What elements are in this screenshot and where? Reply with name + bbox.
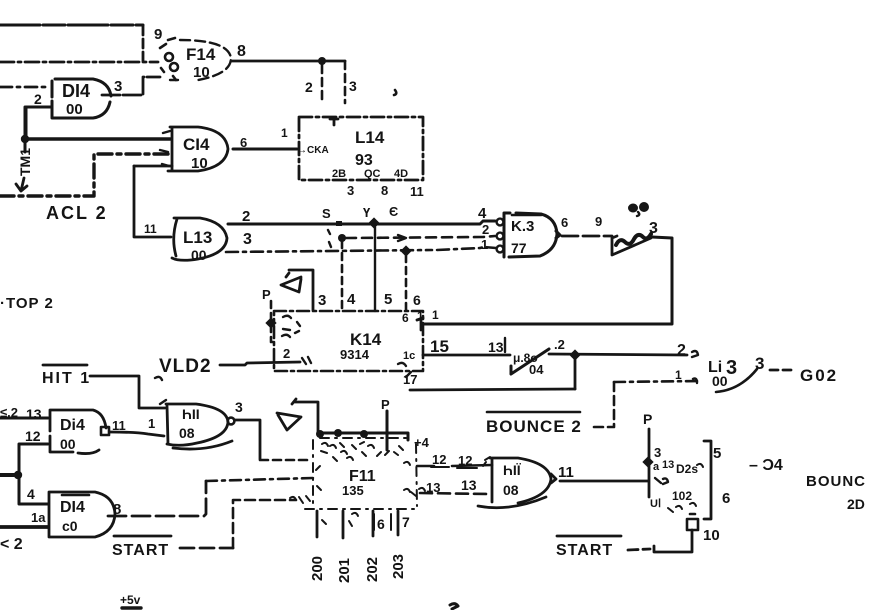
wire K14 pin17 run to junction drop (410, 389, 575, 390)
wire D14 output to F14 lower input (102, 77, 160, 95)
gate HIT2 output nub (551, 474, 556, 483)
net BOUNCE2 overline (487, 411, 580, 414)
wire START1 riser into F11 pin1 (233, 500, 296, 548)
svg-text:5: 5 (713, 445, 721, 462)
wire F14 output run (232, 60, 345, 63)
svg-text:.2: .2 (554, 337, 565, 352)
wire F11 out13 to HIT gate (420, 493, 490, 494)
wire left edge to D14b pin13 (0, 417, 48, 420)
svg-text:1: 1 (417, 309, 424, 323)
F11 top pin scribbles (321, 442, 398, 456)
flag P marker lower bracket (292, 399, 318, 433)
svg-text:201: 201 (336, 558, 353, 583)
wire QB drop to K14 pin5 (374, 227, 376, 311)
gate F14 body arc (170, 40, 231, 80)
svg-text:8: 8 (237, 43, 246, 60)
svg-text:1a: 1a (31, 510, 46, 525)
gate C14 body (168, 127, 228, 171)
svg-text:4: 4 (478, 205, 487, 222)
pin label underlines (431, 467, 477, 468)
wire D14c output dash run (108, 481, 206, 516)
net HIT1 overline (43, 364, 87, 367)
svg-text:00: 00 (191, 247, 207, 263)
svg-text:102: 102 (672, 489, 692, 503)
svg-text:3: 3 (243, 231, 252, 248)
svg-text:08: 08 (503, 482, 519, 498)
IC box F11 outline (305, 438, 417, 509)
stray mark bottom center (450, 604, 458, 609)
inverter D4 triangle (612, 236, 651, 255)
SEC-TOPLEFT (0, 25, 424, 312)
svg-text:00: 00 (66, 101, 83, 118)
wire P2 vertical (648, 429, 651, 497)
svg-text:3: 3 (349, 78, 357, 94)
F11 extra pin scribbles (330, 445, 403, 461)
svg-text:10: 10 (193, 64, 210, 81)
wire QC line dashes to K3 pin2 (346, 236, 495, 238)
svg-text:3: 3 (347, 183, 354, 198)
svg-text:4: 4 (27, 486, 35, 502)
svg-text:K.3: K.3 (511, 218, 534, 235)
svg-text:P: P (381, 397, 390, 412)
wire BOUNCE2 riser (593, 382, 614, 427)
svg-text:2: 2 (34, 91, 42, 107)
gate L13 body (172, 218, 227, 260)
svg-text:11: 11 (144, 222, 157, 236)
wire drop from junction (574, 355, 577, 389)
junction on F14 output (318, 57, 326, 65)
svg-text:L14: L14 (355, 128, 385, 147)
junction diamond on QB line (368, 217, 379, 228)
svg-text:D2ѕ: D2ѕ (676, 462, 698, 476)
svg-text:2: 2 (283, 346, 290, 361)
svg-text:3: 3 (755, 354, 764, 373)
junction dots on F11 top bus (316, 430, 324, 438)
svg-text:P: P (262, 287, 271, 302)
svg-text:1: 1 (432, 308, 439, 322)
wire VLD2 into K14 (220, 362, 300, 365)
K14 left scribbles (282, 316, 300, 337)
svg-text:13: 13 (26, 406, 42, 422)
flag arrow lower (277, 413, 301, 430)
pin 6 bracket (374, 514, 391, 530)
svg-text:4: 4 (347, 291, 356, 308)
svg-text:7: 7 (402, 514, 410, 530)
gate E8 output bubble (228, 418, 235, 425)
svg-text:˂ 2: ˂ 2 (0, 536, 23, 553)
svg-text:202: 202 (364, 557, 381, 582)
F11 bottom pin stubs (317, 511, 398, 538)
stub marks x328 (328, 230, 331, 247)
wire C14 output to L14 (233, 148, 297, 151)
svg-text:135: 135 (342, 483, 364, 498)
wire input to D14 from left edge (0, 86, 50, 89)
svg-text:2B: 2B (332, 168, 346, 180)
flag P marker upper (286, 270, 313, 310)
wire ACC2 dash-dot from left edge (0, 154, 170, 196)
svg-text:1: 1 (148, 416, 155, 431)
svg-text:2D: 2D (847, 496, 865, 512)
svg-text:08: 08 (179, 425, 195, 441)
svg-text:c0: c0 (62, 518, 78, 534)
svg-text:L13: L13 (183, 228, 212, 247)
svg-text:15: 15 (430, 337, 449, 356)
node TM1 junction (21, 135, 29, 143)
inverter D4 blobs above (628, 204, 638, 213)
junction dot on left vertical (14, 471, 22, 479)
svg-text:6: 6 (561, 215, 568, 230)
gate D14b body (50, 410, 106, 454)
K14 output corner marks (417, 318, 423, 330)
net P vertical into F11 (386, 411, 389, 450)
gate F14 scribble marks (160, 38, 176, 80)
svg-text:13: 13 (662, 459, 674, 471)
svg-text:Uا: Uا (650, 498, 661, 510)
svg-text:8: 8 (381, 183, 388, 198)
gate D14b output square (101, 427, 109, 435)
wire START2 dash (628, 549, 650, 550)
wire QC drop to K14 pin4 (341, 241, 344, 311)
flag arrow upper (281, 277, 301, 292)
svg-text:04: 04 (529, 362, 544, 377)
arrowhead on QC line (398, 235, 406, 241)
pin 13 tick (504, 338, 506, 352)
inverter D4 scribble label (616, 234, 651, 245)
gate K3 input bubbles (497, 219, 504, 226)
svg-text:6: 6 (377, 516, 385, 532)
svg-text:12: 12 (458, 453, 472, 468)
svg-text:S: S (322, 206, 331, 221)
SEC-BOTTOM (0, 365, 866, 609)
svg-text:F14: F14 (186, 45, 216, 64)
junction dot QC line (338, 234, 346, 242)
wire BOUNCE2 lower input dash-dot (614, 381, 700, 382)
wire vertical x134 down to L13 (134, 166, 171, 237)
svg-text:QC: QC (364, 168, 381, 180)
svg-text:1c: 1c (403, 350, 415, 362)
svg-text:12: 12 (432, 452, 446, 467)
wire K3 output to inverter (562, 235, 612, 238)
svg-text:11: 11 (558, 464, 574, 481)
svg-text:4D: 4D (394, 168, 408, 180)
wire top feed from left edge (0, 24, 143, 27)
svg-text:3: 3 (114, 78, 122, 95)
wire D14b output to gate E8 (110, 432, 164, 436)
gate K3 body (504, 213, 557, 257)
gate C14 input ticks (160, 131, 170, 166)
svg-text:3: 3 (649, 220, 658, 237)
svg-text:2: 2 (242, 208, 250, 225)
svg-text:→CKA: →CKA (297, 145, 329, 156)
svg-text:1: 1 (675, 368, 682, 382)
IC box L14 (7493 counter) (299, 117, 423, 180)
net START1 overline (114, 535, 171, 538)
svg-text:2: 2 (305, 79, 313, 95)
wire START1 to riser (180, 547, 233, 550)
svg-text:3: 3 (726, 357, 737, 379)
svg-text:12: 12 (25, 428, 41, 444)
svg-text:ACL 2: ACL 2 (46, 203, 108, 223)
junction diamond on QD line (400, 245, 411, 256)
svg-text:·TOP 2: ·TOP 2 (0, 295, 54, 312)
wire dash into F11 left (260, 459, 312, 462)
wire F11 top bus (318, 433, 408, 440)
svg-text:77: 77 (511, 240, 527, 256)
K14 pin17 tick (398, 363, 411, 377)
svg-text:2: 2 (677, 342, 686, 359)
svg-text:STARТ: STARТ (556, 542, 613, 559)
svg-text:6: 6 (413, 292, 421, 308)
svg-text:9: 9 (595, 214, 602, 229)
svg-text:13: 13 (461, 477, 477, 493)
svg-text:11: 11 (410, 184, 424, 199)
small mark on lower input (693, 379, 697, 384)
svg-text:3: 3 (318, 292, 326, 309)
svg-text:DI4: DI4 (60, 499, 85, 516)
wire D14c output dash into F11 (206, 478, 313, 481)
svg-text:– Ɔ4: – Ɔ4 (749, 457, 783, 474)
svg-text:HIT 1: HIT 1 (42, 370, 91, 387)
svg-text:9: 9 (154, 26, 162, 43)
svg-text:93: 93 (355, 152, 373, 169)
wire HIT2 output to D4 (560, 480, 648, 483)
svg-text:6: 6 (402, 311, 409, 325)
inverter M8 04 diagonal (511, 349, 549, 374)
wire D14 pin2 corner (26, 107, 52, 139)
svg-text:200: 200 (309, 556, 326, 581)
wire HIT1 to gate E8 (90, 376, 165, 408)
gate D14c body (49, 492, 115, 537)
IC D4 right bracket (704, 441, 711, 519)
IC box K14 (9314) (274, 311, 423, 371)
wire D14b pin12 corner from vertical (19, 444, 48, 504)
svg-text:a: a (653, 461, 660, 473)
svg-text:5: 5 (384, 291, 392, 308)
gate D14 (7400) body (52, 79, 111, 118)
svg-text:ҺІЇ: ҺІЇ (503, 462, 522, 478)
wire stub from left edge (0, 473, 18, 477)
wire dash-dot bus into F14 pin (0, 61, 158, 64)
small mark after 2 (692, 351, 698, 357)
wire C14 third input from vertical (134, 165, 172, 168)
wire Q output 15 line (423, 354, 510, 357)
wire START2 to D4 (654, 530, 692, 552)
wire QD dash-dot line to K3 pin1 (226, 247, 496, 252)
gate K3 overbar (512, 214, 541, 217)
wire F11 out12 to HIT gate (417, 465, 492, 466)
wire QD drop to K14 pin6 (405, 255, 408, 311)
junction diamond on P drop (265, 317, 276, 328)
svg-text:1: 1 (281, 126, 288, 140)
F11 bottom pin ticks (322, 513, 358, 526)
wire P dash into K14 (271, 301, 276, 342)
net TM1 arrow tail (16, 178, 27, 191)
svg-text:BOUNC: BOUNC (806, 473, 866, 490)
svg-text:BOUNCE 2: BOUNCE 2 (486, 417, 582, 436)
svg-text:Dі4: Dі4 (60, 417, 85, 434)
+5V bar (122, 606, 141, 609)
svg-text:00: 00 (712, 373, 728, 389)
D4 bottom square pin (687, 514, 698, 530)
wire E8 output corner to F11 (235, 420, 260, 459)
wire TM1 to C14 pin1 (25, 137, 170, 140)
wire junction drop to L14 pin B (321, 65, 324, 103)
pin 5 mark gate E8 (155, 377, 166, 404)
gate F14 input bubbles (165, 53, 173, 61)
svg-text:1: 1 (481, 237, 488, 252)
small mark right of L14 pins (394, 90, 396, 95)
svg-text:2: 2 (482, 222, 489, 237)
F11 right pin scribbles (404, 462, 425, 496)
svg-text:ҺІІ: ҺІІ (182, 406, 200, 422)
K14 pin2 tick (302, 357, 311, 364)
svg-text:9314: 9314 (340, 347, 370, 362)
gate E8 HIT body (166, 404, 232, 449)
svg-text:00: 00 (60, 436, 76, 452)
wire left edge to D14c pin10 (0, 525, 48, 529)
SEC-MID (144, 202, 838, 436)
wire corner down to F14 input (142, 26, 145, 63)
svg-text:6: 6 (722, 490, 730, 507)
junction diamond x575 (569, 349, 580, 360)
svg-text:10: 10 (703, 527, 720, 544)
net START2 overline (557, 535, 621, 538)
wire QB line to K3 pin4 (228, 221, 495, 224)
wire inverter to L13 GO2 (549, 354, 687, 355)
junction diamond on P2 (642, 456, 653, 467)
svg-text:STARТ: STARТ (112, 542, 169, 559)
gate HIT2 body (478, 458, 551, 508)
svg-text:G02: G02 (800, 366, 838, 385)
svg-text:13: 13 (488, 339, 504, 355)
net TM1 vertical (24, 107, 27, 152)
F11 left pin scribbles (290, 466, 321, 503)
svg-text:10: 10 (191, 155, 208, 172)
svg-text:13: 13 (426, 480, 440, 495)
wire dash to GO2 (770, 369, 792, 372)
svg-text:+5v: +5v (120, 593, 141, 607)
D4 crossing tick (655, 478, 668, 484)
svg-text:3: 3 (654, 445, 661, 460)
svg-text:DI4: DI4 (62, 81, 90, 101)
gate D14c overline (62, 494, 89, 497)
mark before HIT gate (483, 457, 490, 466)
small square mark on QB line (336, 221, 342, 226)
svg-text:CI4: CI4 (183, 135, 210, 154)
svg-text:Ү: Ү (363, 205, 371, 220)
svg-text:203: 203 (390, 554, 407, 579)
wire inverter output feedback (423, 237, 672, 324)
svg-text:VLD2: VLD2 (159, 356, 212, 377)
svg-text:3: 3 (235, 399, 243, 415)
wire corner down to L14 pin A (344, 61, 347, 103)
gate L13 GO2 arc (716, 369, 757, 392)
svg-text:Є: Є (389, 204, 398, 219)
svg-text:P: P (643, 411, 652, 427)
gate K3 output nub (556, 231, 560, 238)
svg-text:TM1: TM1 (17, 148, 33, 176)
L14 top pin tick (330, 119, 338, 125)
